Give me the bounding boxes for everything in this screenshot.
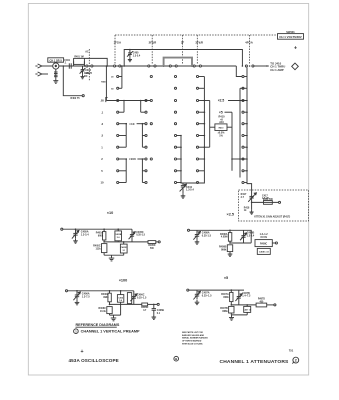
wire colE feed bbox=[236, 66, 242, 77]
wire colD bus2 stub bot bbox=[204, 146, 209, 148]
wire x100 gnd bus bbox=[110, 304, 121, 315]
wire x10 bus right bbox=[141, 124, 143, 148]
wire colE stub row6 bbox=[244, 146, 247, 148]
ground x100 bbox=[111, 315, 116, 321]
node bus input top bbox=[106, 65, 108, 67]
contact SW401 main path 4 bbox=[154, 65, 156, 67]
contact colE row7 bbox=[242, 158, 244, 160]
wire drop b to row .1 bbox=[141, 101, 145, 113]
label position 2 bbox=[101, 157, 103, 161]
contact colB row5 bbox=[145, 134, 147, 136]
wire SW401 wafer 4F dashed bbox=[249, 35, 251, 64]
wire R407A top lead bbox=[230, 290, 232, 292]
ground x5 bbox=[229, 315, 234, 320]
ground C406E bbox=[151, 315, 156, 320]
contact SW401 main path 5 bbox=[169, 65, 171, 67]
svg-text:866k: 866k bbox=[222, 310, 228, 313]
label x2.5 section bbox=[227, 213, 235, 217]
contact colA row9 bbox=[117, 181, 119, 183]
contact colA row3 bbox=[117, 111, 119, 113]
contact colA row4 bbox=[117, 123, 119, 125]
wire colD stub row7 bbox=[199, 158, 204, 160]
label C408A 0.35-1.5 bbox=[202, 232, 212, 238]
wire x10 ground bus bbox=[104, 254, 124, 256]
contact colB2 bbox=[150, 158, 152, 160]
wire row .05 link bbox=[106, 100, 150, 102]
node colE bus bbox=[246, 146, 248, 148]
label 453A OSCILLOSCOPE bbox=[69, 358, 119, 363]
contact colE row4 bbox=[242, 123, 244, 125]
svg-text:SW401: SW401 bbox=[286, 30, 295, 34]
resistor R401 1M bypass box bbox=[74, 58, 85, 64]
node bus4 row7 bbox=[239, 158, 241, 160]
node colE bus bbox=[246, 170, 248, 172]
svg-text:.05: .05 bbox=[100, 99, 104, 103]
svg-text:AC: AC bbox=[85, 51, 89, 54]
resistor R416 box bbox=[264, 201, 273, 205]
contact colA row8 bbox=[117, 170, 119, 172]
svg-text:453A OSCILLOSCOPE: 453A OSCILLOSCOPE bbox=[69, 358, 119, 363]
wire x5 gnd bus bbox=[231, 312, 247, 315]
contact colB row4 bbox=[145, 123, 147, 125]
wire colE stub row3 bbox=[244, 111, 247, 113]
contact colE row8 bbox=[242, 170, 244, 172]
label C406A 1.3-7.5 bbox=[82, 293, 90, 299]
contact colB row8 bbox=[145, 170, 147, 172]
wire bus3 row3 link bbox=[225, 111, 233, 113]
contact SW402 a bbox=[86, 65, 88, 67]
contact SW401 main path 10 bbox=[252, 65, 254, 67]
ground C407A bbox=[195, 300, 200, 305]
label C405A 1.3-5.4 bbox=[81, 231, 89, 237]
label x100 divider bbox=[129, 157, 136, 161]
svg-text:±0.5%: ±0.5% bbox=[260, 236, 268, 239]
node colE bus bbox=[246, 158, 248, 160]
node R402 branch bbox=[63, 65, 65, 67]
svg-text:×10: ×10 bbox=[107, 211, 113, 215]
resistor R408C box bbox=[255, 240, 272, 247]
node x2.5 mid bbox=[229, 242, 231, 244]
ground C405A bbox=[73, 238, 78, 243]
wire x10 lower bbox=[104, 241, 148, 243]
svg-text:+: + bbox=[294, 45, 297, 51]
wire x2.5 lower bbox=[230, 241, 251, 243]
wire x10 bus left bbox=[125, 124, 127, 148]
wire x100 bus left bbox=[125, 159, 127, 183]
node x5 mid bbox=[231, 304, 233, 306]
svg-text:R418: R418 bbox=[244, 206, 250, 209]
wire SW401 wafer 3F dashed bbox=[182, 35, 184, 64]
node colD bus1 bbox=[204, 123, 206, 125]
svg-text:990k: 990k bbox=[103, 296, 109, 299]
resistor R405A box bbox=[103, 229, 106, 242]
contact x2.5 input bbox=[187, 229, 189, 231]
label position .05 bbox=[100, 99, 104, 103]
wire gain output bbox=[252, 201, 279, 203]
offpage connector diamond bbox=[292, 63, 299, 70]
label R405A 900k bbox=[96, 232, 104, 238]
svg-text:900k: 900k bbox=[98, 235, 104, 238]
node colC row6 bbox=[180, 146, 182, 148]
capacitor C407B trimmer bridge bbox=[235, 290, 242, 305]
label R407D 400 bbox=[258, 298, 265, 304]
capacitor C417 trimmer bbox=[248, 193, 256, 202]
svg-text:ATTEN X1 GAIN ADJUST (R417): ATTEN X1 GAIN ADJUST (R417) bbox=[254, 216, 290, 219]
node x2.5 series top bbox=[229, 230, 231, 232]
svg-text:1.4–7.3: 1.4–7.3 bbox=[242, 295, 251, 298]
node gain tap bbox=[251, 202, 253, 204]
symbol circled B bbox=[174, 356, 179, 361]
label TO J410 bbox=[270, 62, 285, 72]
node upper feed right bbox=[242, 65, 244, 67]
node colD bus1 bbox=[204, 146, 206, 148]
svg-text:R416 500: R416 500 bbox=[263, 198, 274, 201]
contact colA row1 bbox=[117, 87, 119, 89]
wire row x10 left stub bbox=[119, 123, 127, 125]
capacitor C405B box bbox=[115, 231, 122, 241]
capacitor C410 divider trimmer bbox=[180, 183, 187, 193]
resistor R408A box bbox=[228, 233, 231, 242]
wire C406B leads bbox=[120, 291, 122, 305]
contact SW401 main path 6 bbox=[175, 65, 177, 67]
node x100 right bbox=[142, 158, 144, 160]
label R401 1M bbox=[74, 56, 83, 59]
label C405C 0.35-1.5 bbox=[136, 231, 145, 237]
node C401-R401 right junction bbox=[74, 61, 86, 66]
contact SW401 main path 1 bbox=[114, 65, 116, 67]
contact colD row9 bbox=[196, 181, 198, 183]
contact colE row3 bbox=[242, 111, 244, 113]
label R403 bbox=[101, 81, 107, 84]
svg-text:OF PARTS MARKED: OF PARTS MARKED bbox=[182, 340, 202, 343]
wire bus4 row8 link bbox=[239, 177, 241, 179]
svg-text:REFERENCE DIAGRAMS: REFERENCE DIAGRAMS bbox=[76, 323, 120, 327]
label x5 section bbox=[224, 276, 228, 280]
node colD bus1 bbox=[204, 158, 206, 160]
wire colD bus1 bbox=[183, 77, 204, 184]
contact colC row1 bbox=[174, 87, 176, 89]
label wafer 3F bbox=[181, 41, 185, 45]
node bus3 bot bbox=[231, 158, 233, 160]
wire SW401 wafer 3FR dashed bbox=[196, 35, 198, 64]
svg-text:CHANNEL 1 VERTICAL PREAMP: CHANNEL 1 VERTICAL PREAMP bbox=[81, 330, 140, 334]
node C405A tap bbox=[75, 228, 77, 230]
svg-text:×100: ×100 bbox=[129, 157, 136, 161]
label position .1 bbox=[101, 110, 104, 114]
capacitor C408C box bbox=[257, 248, 270, 254]
svg-text:751: 751 bbox=[289, 348, 294, 352]
contact colD row4 bbox=[196, 123, 198, 125]
contact colE row6 bbox=[242, 146, 244, 148]
svg-text:DC: DC bbox=[84, 75, 88, 78]
label reference diagram 1 bbox=[74, 329, 140, 334]
contact R402 end bbox=[82, 95, 84, 97]
wire colC stub row7 bbox=[177, 158, 181, 160]
resistor R407B box bbox=[229, 306, 234, 313]
wire C405B leads bbox=[117, 229, 119, 242]
capacitor C401 on main wire bbox=[69, 63, 71, 68]
label x10 section bbox=[107, 211, 113, 215]
contact colA row0 bbox=[117, 75, 119, 77]
capacitor C406C trimmer bridge bbox=[130, 291, 137, 305]
capacitor C408A trimmer bbox=[193, 230, 200, 239]
wire colD stub row4 bbox=[199, 123, 204, 125]
wire x100 lower bbox=[110, 303, 142, 305]
label x2.5 bbox=[218, 99, 225, 103]
wire x100 row3 stubs bbox=[119, 182, 145, 184]
svg-text:866k: 866k bbox=[221, 248, 227, 251]
contact x10 input bbox=[61, 228, 63, 230]
node output tap bbox=[249, 65, 251, 67]
svg-text:CHANNEL 1 ATTENUATORS: CHANNEL 1 ATTENUATORS bbox=[220, 359, 290, 365]
note parts list bbox=[182, 331, 208, 345]
wire bus input divider bbox=[105, 66, 107, 101]
wire R408A top lead bbox=[229, 230, 231, 232]
svg-text:WITH BLUE OUTLINE.: WITH BLUE OUTLINE. bbox=[182, 343, 203, 345]
wire R405D out lead bbox=[156, 241, 158, 243]
wire input stub arrow2 bbox=[42, 73, 48, 75]
node colE bus bbox=[246, 100, 248, 102]
contact colE row5 bbox=[242, 134, 244, 136]
wire x5 top bbox=[189, 289, 244, 291]
trimmer C405 on feed bus bbox=[127, 50, 133, 58]
node C405B top bbox=[117, 228, 119, 230]
connector J401 pin 2 arrow bbox=[35, 72, 41, 76]
svg-text:×10: ×10 bbox=[129, 122, 135, 126]
contact x5 input bbox=[187, 289, 189, 291]
capacitor C406A trimmer bbox=[73, 291, 80, 300]
capacitor C405C trimmer bridge bbox=[129, 229, 136, 242]
label box CH 1 OR X bbox=[48, 58, 64, 63]
label C407B 1.4-7.3 bbox=[242, 292, 251, 298]
contact colD row3 bbox=[196, 111, 198, 113]
capacitor C406B box bbox=[117, 295, 123, 303]
node bypass left tap bbox=[163, 65, 165, 67]
contact colA row5 bbox=[117, 134, 119, 136]
node C405D top bbox=[123, 241, 125, 243]
svg-text:1.3-5.4: 1.3-5.4 bbox=[133, 54, 141, 57]
wire R405C leads bbox=[103, 253, 105, 256]
node x100 out tap bbox=[153, 304, 155, 306]
wire x1 bypass thick bbox=[164, 58, 192, 66]
label C410 1.3-5.4 bbox=[186, 186, 194, 192]
contact colA row7 bbox=[117, 158, 119, 160]
wire bus3 mid bbox=[231, 112, 233, 171]
wire colD bus2 stub top bbox=[204, 100, 209, 102]
registration mark bottom left bbox=[80, 349, 83, 355]
label R408A 4.05M bbox=[220, 233, 228, 239]
contact colB row6 bbox=[145, 146, 147, 148]
wire x100 bus right bbox=[141, 159, 143, 183]
svg-text:2F&R: 2F&R bbox=[149, 41, 157, 45]
wire colD stub row2 bbox=[199, 100, 204, 102]
contact colD row6 bbox=[196, 146, 198, 148]
node x5 series top bbox=[231, 289, 233, 291]
capacitor C405A trimmer bbox=[72, 229, 79, 238]
wire colE stub row4 bbox=[244, 123, 247, 125]
svg-text:1FGA: 1FGA bbox=[113, 41, 122, 45]
svg-text:R407D: R407D bbox=[258, 298, 265, 301]
wire C407C top lead bbox=[246, 305, 248, 307]
node colC row7 bbox=[180, 158, 182, 160]
ground C402 bbox=[80, 74, 84, 78]
label x5 row bbox=[219, 110, 223, 114]
node x10 right bbox=[142, 123, 144, 125]
contact colD row2 bbox=[196, 99, 198, 101]
wire x10 row3 stubs bbox=[119, 146, 145, 148]
node x10 left bbox=[125, 123, 127, 125]
resistor R410 box bbox=[215, 124, 227, 131]
label R418 bbox=[244, 206, 250, 212]
svg-text:111k: 111k bbox=[96, 247, 102, 250]
wire x100 row2 stubs bbox=[119, 170, 145, 172]
svg-text:R403: R403 bbox=[101, 81, 107, 84]
contact colD row7 bbox=[196, 158, 198, 160]
contact colB2 bbox=[150, 75, 152, 77]
label x100 section bbox=[119, 279, 128, 283]
contact SW401 main path 9 bbox=[245, 65, 247, 67]
wire connector to ground switch bbox=[55, 69, 57, 78]
contact x10 output bbox=[158, 241, 160, 243]
node row .05 b bbox=[140, 100, 142, 102]
wire colD bus2 bbox=[209, 101, 211, 148]
ground gain box bbox=[250, 210, 254, 214]
capacitor C407C box bbox=[243, 306, 251, 312]
node x100 series top bbox=[109, 290, 111, 292]
wire colE stub row8 bbox=[244, 170, 247, 172]
contact colA row2 bbox=[117, 99, 119, 101]
wire colD stub row8 bbox=[199, 170, 204, 172]
label wafer 3F&amp;R bbox=[195, 41, 203, 45]
label wafer 1FGA bbox=[113, 41, 122, 45]
wire row x10 right stub bbox=[137, 123, 145, 125]
label position .5 bbox=[101, 134, 104, 138]
svg-text:10.1k: 10.1k bbox=[100, 310, 107, 313]
svg-text:0.35-1.5: 0.35-1.5 bbox=[136, 234, 145, 237]
ground C406A bbox=[75, 300, 80, 305]
contact colC row5 bbox=[174, 134, 176, 136]
wire R402 branch bbox=[63, 66, 82, 96]
node C406A tap bbox=[76, 290, 78, 292]
svg-text:C405D: C405D bbox=[121, 246, 128, 249]
wire colC bus bbox=[181, 136, 183, 184]
label R405C 111k bbox=[93, 244, 101, 250]
label C405 1.3-5.4 bbox=[133, 52, 141, 58]
contact colB row3 bbox=[145, 111, 147, 113]
wire drop a to row .1 bbox=[119, 101, 124, 113]
svg-text:C405B: C405B bbox=[115, 233, 122, 236]
label CHANNEL 1 ATTENUATORS bbox=[220, 359, 290, 365]
node C407C top bbox=[246, 304, 248, 306]
node x100 left bbox=[125, 158, 127, 160]
node colD bus1 bbox=[204, 111, 206, 113]
svg-text:0.25–1.5: 0.25–1.5 bbox=[137, 296, 147, 299]
label C407A 0.25-1.5 bbox=[202, 291, 212, 297]
node x10 shunt top bbox=[103, 241, 105, 243]
label R408C values bbox=[260, 233, 269, 239]
svg-text:1.3-5.4: 1.3-5.4 bbox=[186, 189, 194, 192]
label GND DC bbox=[84, 72, 90, 78]
capacitor C406E shunt bbox=[152, 304, 156, 314]
svg-text:CH 1 AMP: CH 1 AMP bbox=[270, 68, 283, 72]
symbol circled 2 bbox=[292, 357, 298, 363]
wire colE stub row0 bbox=[244, 76, 247, 78]
svg-text:SERIAL NUMBER RANGES: SERIAL NUMBER RANGES bbox=[182, 337, 208, 340]
wire x100 top bbox=[68, 290, 134, 292]
wire colE stub row7 bbox=[244, 158, 247, 160]
svg-text:+: + bbox=[80, 349, 83, 355]
resistor R407D box bbox=[256, 303, 267, 307]
svg-text:×2.5: ×2.5 bbox=[227, 213, 235, 217]
label R416 500 bbox=[263, 198, 274, 201]
contact colE row0 bbox=[242, 75, 244, 77]
wire output to J410 bbox=[254, 65, 269, 67]
svg-text:×2.5: ×2.5 bbox=[218, 99, 225, 103]
ground C408A bbox=[195, 239, 200, 244]
svg-text:10: 10 bbox=[101, 181, 104, 185]
wire colE stub row5 bbox=[244, 135, 247, 137]
ground x2.5 bbox=[228, 252, 233, 257]
contact x100 output bbox=[157, 303, 159, 305]
wire colA upper bus bbox=[119, 66, 122, 88]
node bus4 top bbox=[239, 100, 241, 102]
label position 10 bbox=[101, 181, 104, 185]
wire colE stub row1 bbox=[244, 87, 247, 89]
svg-text:×100: ×100 bbox=[119, 279, 128, 283]
contact gain output bbox=[278, 201, 280, 203]
contact colC row6 bbox=[174, 146, 176, 148]
wire colD stub row5 bbox=[199, 135, 204, 137]
node colA upper bus bbox=[121, 65, 123, 67]
contact colC row8 bbox=[174, 170, 176, 172]
wire colC stub row6 bbox=[177, 146, 181, 148]
wire SW401 wafer 2F dashed bbox=[151, 35, 153, 64]
node x100 mid bbox=[109, 304, 111, 306]
label wafer 2F&amp;R bbox=[149, 41, 157, 45]
bracket position marker bbox=[106, 98, 108, 103]
capacitor C407A trimmer bbox=[193, 290, 200, 299]
resistor R405C box bbox=[102, 244, 107, 253]
resistor R406A box bbox=[108, 291, 111, 305]
switch SW402 coupling dashed bbox=[88, 49, 90, 81]
contact colE row1 bbox=[242, 87, 244, 89]
label C408B 1.3-5.4 bbox=[247, 231, 255, 237]
svg-text:4FGA: 4FGA bbox=[245, 41, 254, 45]
label C401 .1 bbox=[64, 59, 70, 65]
label position .2 bbox=[101, 122, 104, 126]
resistor R405D box bbox=[148, 241, 156, 244]
input connector circle bbox=[53, 63, 59, 69]
contact colD row5 bbox=[196, 134, 198, 136]
contact colD row8 bbox=[196, 170, 198, 172]
wire R401 bypass to first contact bbox=[84, 58, 107, 65]
wire x2.5 top bbox=[190, 230, 252, 243]
contact colC row4 bbox=[174, 123, 176, 125]
svg-text:1.3-5.4: 1.3-5.4 bbox=[81, 234, 89, 237]
label position 5 bbox=[101, 169, 103, 173]
wire C405D leads bbox=[123, 242, 125, 255]
svg-text:R406D: R406D bbox=[141, 306, 148, 309]
label R417 bbox=[241, 193, 247, 199]
wire R410 left lead bbox=[210, 126, 215, 128]
node colC row8 bbox=[180, 170, 182, 172]
contact colC row7 bbox=[174, 158, 176, 160]
label R406C 10.1k bbox=[98, 307, 106, 313]
contact colE row2 bbox=[242, 99, 244, 101]
svg-text:×5: ×5 bbox=[224, 276, 228, 280]
node colD bus1 bbox=[204, 100, 206, 102]
label R406A 990k bbox=[101, 293, 109, 299]
